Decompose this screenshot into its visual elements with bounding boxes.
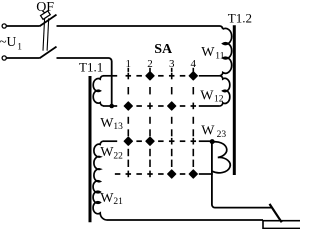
svg-text:21: 21 [113, 197, 123, 207]
svg-text:~U: ~U [0, 34, 17, 49]
svg-text:3: 3 [169, 58, 175, 70]
svg-text:12: 12 [214, 95, 224, 105]
svg-text:23: 23 [217, 130, 227, 140]
svg-text:W: W [200, 88, 214, 103]
svg-text:W: W [201, 45, 215, 60]
svg-text:W: W [100, 191, 114, 206]
svg-text:W: W [201, 123, 215, 138]
svg-text:T1.2: T1.2 [228, 10, 252, 25]
svg-text:SA: SA [154, 42, 173, 57]
svg-text:11: 11 [215, 52, 224, 62]
svg-text:QF: QF [36, 0, 54, 15]
svg-text:T1.1: T1.1 [79, 59, 103, 74]
svg-text:W: W [100, 116, 114, 131]
svg-text:22: 22 [113, 152, 123, 162]
svg-text:2: 2 [147, 58, 153, 70]
svg-text:4: 4 [191, 58, 197, 70]
svg-text:13: 13 [113, 122, 123, 132]
svg-text:1: 1 [17, 42, 22, 52]
svg-text:1: 1 [126, 58, 132, 70]
svg-text:W: W [100, 145, 114, 160]
